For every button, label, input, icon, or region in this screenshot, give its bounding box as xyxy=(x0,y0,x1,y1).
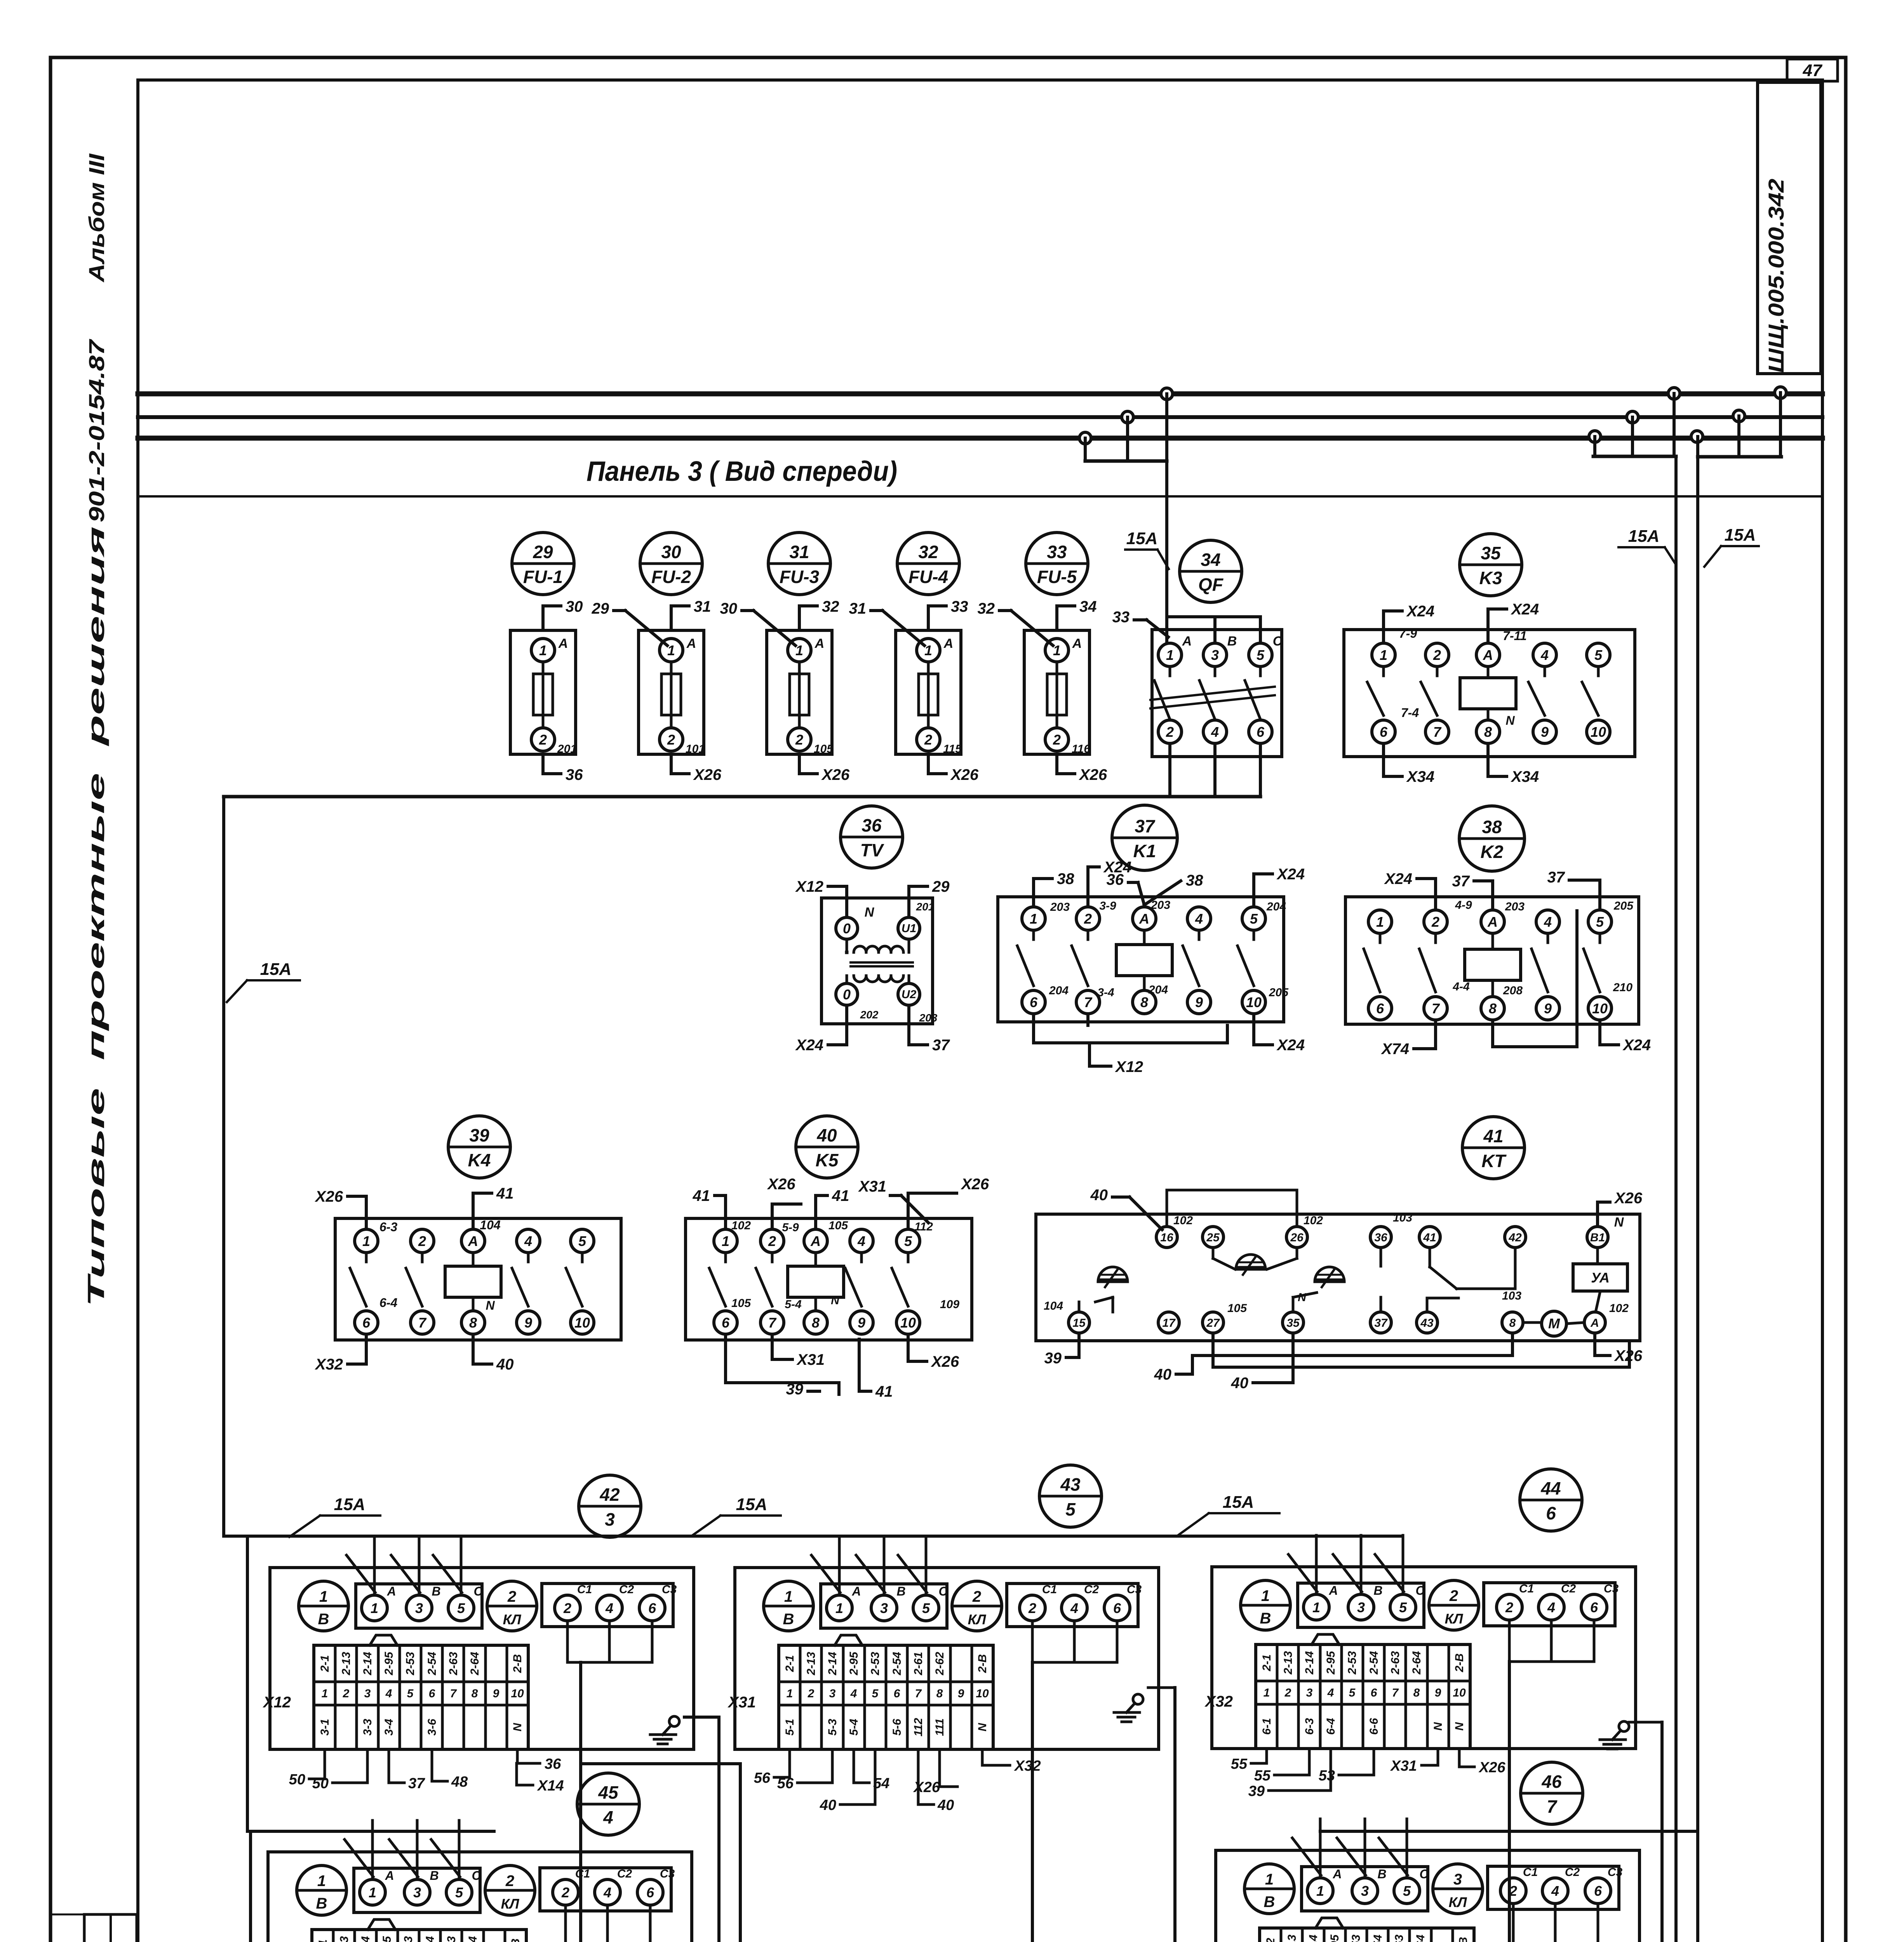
svg-text:X34: X34 xyxy=(1511,768,1539,785)
svg-text:32: 32 xyxy=(918,542,938,562)
svg-text:X26: X26 xyxy=(950,766,979,783)
svg-text:2: 2 xyxy=(563,1600,571,1616)
svg-text:33: 33 xyxy=(1047,542,1067,562)
svg-text:37: 37 xyxy=(1374,1317,1388,1329)
svg-text:44: 44 xyxy=(1540,1478,1561,1498)
svg-text:10: 10 xyxy=(1592,1001,1608,1016)
circuit breaker QF xyxy=(1112,540,1283,797)
terminal assembly 43 X31 xyxy=(727,1465,1159,1749)
svg-text:2-1: 2-1 xyxy=(1260,1654,1273,1671)
terminal assembly 46 X34 xyxy=(1208,1762,1639,1942)
svg-text:41: 41 xyxy=(832,1187,849,1204)
svg-text:6-6: 6-6 xyxy=(1368,1718,1380,1735)
svg-text:37: 37 xyxy=(1547,869,1565,886)
svg-text:3-53: 3-53 xyxy=(1350,1935,1363,1942)
svg-text:3: 3 xyxy=(880,1600,888,1616)
svg-text:1: 1 xyxy=(1030,911,1037,927)
svg-text:6: 6 xyxy=(362,1315,371,1331)
svg-text:43: 43 xyxy=(1420,1317,1434,1329)
svg-text:X31: X31 xyxy=(1390,1758,1417,1774)
svg-text:36: 36 xyxy=(545,1756,561,1772)
svg-text:15A: 15A xyxy=(1126,529,1158,548)
svg-text:3-64: 3-64 xyxy=(1414,1935,1427,1942)
svg-text:5: 5 xyxy=(1257,647,1265,663)
svg-text:41: 41 xyxy=(496,1185,514,1202)
svg-text:2-В: 2-В xyxy=(1453,1653,1466,1672)
fuse FU-4 xyxy=(849,532,979,783)
svg-text:111: 111 xyxy=(933,1718,946,1736)
svg-text:27: 27 xyxy=(1206,1317,1220,1329)
svg-text:5-6: 5-6 xyxy=(891,1719,903,1736)
svg-text:1: 1 xyxy=(322,1687,328,1700)
wire QF output bar / left feeder xyxy=(224,797,1260,1536)
svg-text:2-61: 2-61 xyxy=(912,1652,925,1676)
left form strip xyxy=(50,1914,137,1942)
svg-text:202: 202 xyxy=(860,1009,879,1021)
wire feeder drops block45 xyxy=(372,1831,459,1879)
svg-text:9: 9 xyxy=(524,1315,532,1331)
terminal assembly 45 X14 xyxy=(261,1773,692,1942)
svg-text:9: 9 xyxy=(958,1687,964,1700)
svg-text:105: 105 xyxy=(731,1297,751,1310)
svg-text:15A: 15A xyxy=(260,960,292,979)
svg-text:7: 7 xyxy=(915,1687,922,1700)
svg-text:5-4: 5-4 xyxy=(848,1719,860,1736)
svg-text:A: A xyxy=(1590,1317,1599,1329)
svg-text:6: 6 xyxy=(1113,1600,1121,1616)
svg-text:A: A xyxy=(468,1233,478,1249)
page number box 47 xyxy=(1787,59,1838,81)
svg-text:U1: U1 xyxy=(902,922,916,935)
svg-text:29: 29 xyxy=(533,542,553,562)
svg-text:В: В xyxy=(1264,1893,1275,1911)
svg-text:2-13: 2-13 xyxy=(338,1936,351,1942)
relay K2 xyxy=(1345,806,1651,1058)
svg-text:2-14: 2-14 xyxy=(1303,1651,1316,1675)
wires X31 bottom labels xyxy=(754,1749,1041,1813)
svg-text:41: 41 xyxy=(693,1187,710,1204)
svg-text:31: 31 xyxy=(694,598,711,615)
svg-text:X24: X24 xyxy=(1276,866,1305,883)
svg-text:X31: X31 xyxy=(796,1351,825,1368)
svg-text:2-13: 2-13 xyxy=(1282,1651,1295,1675)
svg-text:40: 40 xyxy=(1231,1375,1249,1392)
svg-text:102: 102 xyxy=(1173,1214,1193,1227)
svg-text:X26: X26 xyxy=(961,1176,989,1193)
svg-text:8: 8 xyxy=(1509,1317,1516,1329)
svg-text:1: 1 xyxy=(1265,1871,1274,1888)
svg-text:7-4: 7-4 xyxy=(1401,706,1419,720)
svg-text:2-53: 2-53 xyxy=(404,1652,417,1676)
svg-text:4: 4 xyxy=(1547,1599,1555,1615)
svg-text:38: 38 xyxy=(1482,817,1502,837)
svg-text:X32: X32 xyxy=(315,1356,343,1373)
svg-text:2: 2 xyxy=(539,732,547,748)
svg-text:8: 8 xyxy=(812,1315,820,1331)
svg-text:C3: C3 xyxy=(662,1583,677,1596)
svg-text:N: N xyxy=(976,1723,989,1731)
svg-text:4: 4 xyxy=(1070,1600,1078,1616)
svg-text:X74: X74 xyxy=(1381,1041,1409,1058)
svg-text:56: 56 xyxy=(777,1775,794,1792)
svg-text:204: 204 xyxy=(1049,984,1069,997)
svg-text:X12: X12 xyxy=(1115,1058,1143,1075)
wire riser to H3-1 xyxy=(581,1764,740,1942)
svg-text:30: 30 xyxy=(566,598,583,615)
svg-text:6: 6 xyxy=(1546,1503,1556,1523)
relay K5 xyxy=(686,1116,989,1400)
svg-text:A: A xyxy=(386,1584,396,1598)
svg-text:2-14: 2-14 xyxy=(359,1936,372,1942)
svg-text:8: 8 xyxy=(936,1687,943,1700)
svg-text:55: 55 xyxy=(1231,1756,1248,1772)
svg-text:6: 6 xyxy=(646,1885,654,1900)
svg-text:K5: K5 xyxy=(816,1150,839,1170)
wires X32 bottom labels xyxy=(1231,1749,1506,1799)
svg-text:33: 33 xyxy=(951,598,968,615)
svg-text:2-64: 2-64 xyxy=(1410,1651,1423,1675)
svg-text:40: 40 xyxy=(816,1125,837,1145)
svg-text:103: 103 xyxy=(1393,1211,1412,1224)
svg-text:39: 39 xyxy=(1044,1350,1062,1367)
svg-text:7: 7 xyxy=(1084,994,1093,1010)
svg-text:N: N xyxy=(1432,1722,1445,1731)
label 15A at block43 xyxy=(691,1495,781,1536)
svg-text:A: A xyxy=(385,1869,394,1883)
svg-text:46: 46 xyxy=(1541,1771,1562,1792)
svg-text:112: 112 xyxy=(914,1220,933,1233)
svg-text:5: 5 xyxy=(1250,911,1258,927)
svg-text:2: 2 xyxy=(507,1588,516,1605)
svg-text:3-1: 3-1 xyxy=(318,1719,331,1735)
svg-text:40: 40 xyxy=(820,1797,836,1813)
svg-text:QF: QF xyxy=(1198,574,1224,595)
svg-text:0: 0 xyxy=(843,921,851,936)
svg-text:2-95: 2-95 xyxy=(848,1651,860,1676)
svg-text:4: 4 xyxy=(1544,914,1552,930)
svg-text:4-9: 4-9 xyxy=(1455,899,1472,912)
svg-text:2: 2 xyxy=(1166,724,1174,740)
svg-text:0: 0 xyxy=(843,987,851,1002)
svg-text:10: 10 xyxy=(900,1315,916,1331)
svg-text:1: 1 xyxy=(835,1600,843,1616)
svg-text:25: 25 xyxy=(1206,1231,1220,1244)
svg-text:A: A xyxy=(1483,647,1493,663)
svg-text:X14: X14 xyxy=(537,1778,564,1794)
svg-text:8: 8 xyxy=(1489,1001,1497,1016)
svg-text:В: В xyxy=(318,1611,329,1628)
svg-text:6-4: 6-4 xyxy=(1324,1718,1337,1735)
svg-text:2-В: 2-В xyxy=(509,1939,522,1942)
svg-text:1: 1 xyxy=(1316,1883,1324,1899)
label 15A at block44 xyxy=(1177,1493,1279,1536)
svg-text:31: 31 xyxy=(789,542,809,562)
svg-text:КЛ: КЛ xyxy=(968,1611,987,1627)
svg-text:C2: C2 xyxy=(1084,1583,1099,1596)
relay K4 xyxy=(315,1116,621,1373)
svg-text:104: 104 xyxy=(1044,1300,1063,1312)
svg-text:2: 2 xyxy=(1431,914,1439,930)
svg-text:M: M xyxy=(1548,1316,1560,1331)
svg-text:38: 38 xyxy=(1186,872,1203,889)
svg-text:C1: C1 xyxy=(1519,1582,1534,1595)
svg-text:15A: 15A xyxy=(1725,526,1756,545)
svg-text:29: 29 xyxy=(592,600,609,617)
svg-text:3-4: 3-4 xyxy=(383,1719,395,1736)
svg-text:9: 9 xyxy=(1544,1001,1552,1016)
svg-text:2-95: 2-95 xyxy=(383,1651,395,1676)
svg-text:C: C xyxy=(472,1869,481,1883)
svg-text:2: 2 xyxy=(1284,1686,1291,1699)
svg-text:7: 7 xyxy=(1433,724,1442,740)
svg-text:203: 203 xyxy=(1505,900,1525,913)
svg-text:3-54: 3-54 xyxy=(1371,1935,1384,1942)
svg-text:7: 7 xyxy=(1392,1686,1399,1699)
svg-text:42: 42 xyxy=(599,1484,620,1505)
svg-text:X26: X26 xyxy=(1614,1190,1643,1207)
svg-text:105: 105 xyxy=(814,743,834,755)
svg-text:32: 32 xyxy=(822,598,839,615)
svg-text:36: 36 xyxy=(1107,871,1124,888)
svg-text:41: 41 xyxy=(875,1383,893,1400)
svg-text:1: 1 xyxy=(319,1588,328,1605)
svg-text:U2: U2 xyxy=(902,988,917,1001)
svg-text:X26: X26 xyxy=(1079,766,1107,783)
svg-text:2-14: 2-14 xyxy=(361,1652,374,1676)
svg-text:4: 4 xyxy=(605,1600,613,1616)
svg-text:3: 3 xyxy=(1357,1599,1365,1615)
svg-text:42: 42 xyxy=(1508,1231,1522,1244)
svg-text:1: 1 xyxy=(722,1233,729,1249)
svg-text:7-11: 7-11 xyxy=(1503,629,1527,643)
svg-text:ШЩ.005.000.342: ШЩ.005.000.342 xyxy=(1764,179,1788,373)
svg-text:B1: B1 xyxy=(1590,1231,1605,1244)
svg-text:2: 2 xyxy=(1084,911,1092,927)
left margin text Типовые проектные решения xyxy=(83,526,109,1307)
svg-text:3: 3 xyxy=(1361,1883,1369,1899)
svg-text:N: N xyxy=(1505,713,1515,727)
bus L2 xyxy=(138,415,1822,419)
svg-text:204: 204 xyxy=(1266,900,1286,913)
svg-text:8: 8 xyxy=(1140,994,1148,1010)
svg-text:33: 33 xyxy=(1112,609,1130,626)
svg-text:8: 8 xyxy=(1484,724,1492,740)
wire left drop to block45 and H3 xyxy=(247,1536,494,1942)
svg-text:6: 6 xyxy=(648,1600,656,1616)
svg-text:2: 2 xyxy=(768,1233,776,1249)
svg-text:6: 6 xyxy=(1590,1599,1598,1615)
bus L3 xyxy=(138,436,1822,441)
svg-text:15A: 15A xyxy=(736,1495,768,1514)
svg-text:35: 35 xyxy=(1286,1317,1300,1329)
svg-text:10: 10 xyxy=(976,1687,989,1700)
svg-text:5: 5 xyxy=(1399,1599,1407,1615)
svg-text:4: 4 xyxy=(1540,647,1549,663)
svg-text:X26: X26 xyxy=(315,1188,343,1205)
svg-text:КЛ: КЛ xyxy=(1445,1611,1464,1627)
svg-text:3: 3 xyxy=(415,1600,423,1616)
svg-text:5: 5 xyxy=(457,1600,465,1616)
svg-text:6: 6 xyxy=(1371,1686,1377,1699)
svg-text:210: 210 xyxy=(1613,981,1632,994)
svg-text:5: 5 xyxy=(904,1233,912,1249)
svg-text:C1: C1 xyxy=(1523,1866,1538,1879)
svg-text:B: B xyxy=(432,1584,440,1598)
svg-text:8: 8 xyxy=(469,1315,477,1331)
svg-text:K1: K1 xyxy=(1133,841,1156,861)
svg-text:C: C xyxy=(1273,634,1283,649)
svg-text:10: 10 xyxy=(1591,724,1606,740)
svg-text:3-3: 3-3 xyxy=(361,1719,374,1736)
svg-text:203: 203 xyxy=(919,1012,938,1024)
svg-text:B: B xyxy=(1373,1584,1382,1597)
svg-text:47: 47 xyxy=(1803,61,1823,80)
svg-text:X24: X24 xyxy=(1276,1037,1305,1054)
svg-text:2: 2 xyxy=(561,1885,569,1900)
svg-text:1: 1 xyxy=(1261,1587,1270,1604)
svg-text:1: 1 xyxy=(371,1600,378,1616)
svg-text:4: 4 xyxy=(857,1233,865,1249)
svg-text:X12: X12 xyxy=(263,1694,291,1711)
svg-text:2-54: 2-54 xyxy=(426,1652,439,1676)
svg-text:A: A xyxy=(1328,1584,1338,1597)
svg-text:53: 53 xyxy=(1319,1768,1335,1784)
svg-text:2-1: 2-1 xyxy=(317,1939,329,1942)
svg-text:6-4: 6-4 xyxy=(379,1296,397,1310)
svg-text:X26: X26 xyxy=(693,766,722,783)
svg-text:C: C xyxy=(1415,1584,1425,1597)
svg-text:Альбом III: Альбом III xyxy=(84,153,109,283)
svg-text:X24: X24 xyxy=(1406,603,1434,620)
svg-text:40: 40 xyxy=(937,1797,954,1813)
wire riser to H4-1 xyxy=(567,1621,652,1942)
svg-text:2: 2 xyxy=(1433,647,1441,663)
svg-text:2-54: 2-54 xyxy=(891,1652,903,1676)
svg-text:5: 5 xyxy=(1596,914,1604,930)
svg-text:901-2-0154.87: 901-2-0154.87 xyxy=(84,338,109,522)
svg-text:37: 37 xyxy=(408,1775,425,1792)
svg-text:41: 41 xyxy=(1483,1126,1503,1146)
wire right feeder A xyxy=(1589,388,1680,1942)
svg-text:X12: X12 xyxy=(795,878,823,895)
svg-text:2-В: 2-В xyxy=(511,1654,524,1673)
svg-text:6: 6 xyxy=(1030,994,1038,1010)
label 15A at feeder B xyxy=(1704,526,1759,567)
svg-text:2: 2 xyxy=(418,1233,426,1249)
svg-text:3: 3 xyxy=(829,1687,836,1700)
svg-text:31: 31 xyxy=(849,600,867,617)
svg-text:2: 2 xyxy=(1028,1600,1036,1616)
svg-text:39: 39 xyxy=(469,1125,489,1145)
left margin text 901-2-0154.87 xyxy=(84,338,109,522)
terminal assembly 44 X32 xyxy=(1204,1469,1636,1749)
svg-text:55: 55 xyxy=(1254,1768,1271,1784)
svg-text:6-3: 6-3 xyxy=(379,1220,397,1234)
svg-text:10: 10 xyxy=(1246,994,1262,1010)
svg-text:2-13: 2-13 xyxy=(340,1652,353,1676)
svg-text:3-В: 3-В xyxy=(1457,1937,1470,1942)
svg-text:36: 36 xyxy=(861,815,882,835)
svg-text:5: 5 xyxy=(1594,647,1603,663)
svg-text:30: 30 xyxy=(720,600,738,617)
svg-text:6: 6 xyxy=(1594,1883,1602,1899)
svg-text:2: 2 xyxy=(343,1687,350,1700)
svg-text:1: 1 xyxy=(784,1588,793,1605)
relay K3 xyxy=(1344,534,1635,785)
svg-text:В: В xyxy=(783,1611,794,1628)
title band line xyxy=(138,495,1822,498)
svg-text:X26: X26 xyxy=(767,1176,795,1193)
svg-text:6: 6 xyxy=(429,1687,435,1700)
svg-text:X26: X26 xyxy=(821,766,850,783)
svg-text:1: 1 xyxy=(539,642,547,658)
svg-text:5: 5 xyxy=(922,1600,930,1616)
wire riser to H5-1 xyxy=(1032,1662,1064,1942)
svg-text:101: 101 xyxy=(686,743,705,755)
svg-text:B: B xyxy=(430,1869,439,1883)
svg-text:56: 56 xyxy=(754,1770,771,1786)
svg-text:A: A xyxy=(815,636,825,651)
svg-text:Панель 3 ( Вид спереди): Панель 3 ( Вид спереди) xyxy=(587,456,897,487)
svg-text:17: 17 xyxy=(1162,1317,1176,1329)
svg-text:X24: X24 xyxy=(1384,870,1412,887)
svg-text:48: 48 xyxy=(451,1774,468,1790)
wire feeder B lower xyxy=(1663,1831,1698,1942)
svg-text:A: A xyxy=(1332,1867,1342,1881)
svg-text:4: 4 xyxy=(603,1885,611,1900)
svg-text:C3: C3 xyxy=(1604,1582,1619,1595)
svg-text:10: 10 xyxy=(511,1687,524,1700)
svg-text:6: 6 xyxy=(894,1687,900,1700)
svg-text:29: 29 xyxy=(932,878,950,895)
svg-text:1: 1 xyxy=(1166,647,1174,663)
svg-text:3-14: 3-14 xyxy=(1307,1935,1320,1942)
svg-text:B: B xyxy=(896,1584,905,1598)
svg-text:1: 1 xyxy=(1312,1599,1320,1615)
svg-text:16: 16 xyxy=(1160,1231,1173,1244)
svg-text:6: 6 xyxy=(1257,724,1265,740)
terminal assembly 42 X12 xyxy=(263,1475,694,1749)
svg-text:105: 105 xyxy=(828,1219,848,1232)
svg-text:39: 39 xyxy=(786,1381,804,1398)
svg-text:2: 2 xyxy=(1449,1587,1458,1604)
svg-text:1: 1 xyxy=(362,1233,370,1249)
svg-text:2-64: 2-64 xyxy=(466,1936,479,1942)
svg-text:34: 34 xyxy=(1079,598,1097,615)
svg-text:2-13: 2-13 xyxy=(805,1652,818,1676)
wire ground riser right xyxy=(1629,1722,1662,1942)
wire feeder to block46 xyxy=(1320,1831,1698,1878)
svg-text:3-9: 3-9 xyxy=(1099,900,1116,912)
svg-text:2-63: 2-63 xyxy=(447,1652,460,1676)
svg-text:FU-3: FU-3 xyxy=(780,567,820,587)
svg-text:A: A xyxy=(1182,634,1192,649)
svg-text:5: 5 xyxy=(1403,1883,1411,1899)
svg-text:2-53: 2-53 xyxy=(1346,1651,1359,1675)
fuse FU-2 xyxy=(592,532,722,783)
svg-text:X26: X26 xyxy=(931,1353,959,1370)
svg-text:КЛ: КЛ xyxy=(1449,1894,1467,1910)
svg-text:112: 112 xyxy=(912,1718,925,1737)
svg-text:УА: УА xyxy=(1591,1270,1610,1286)
svg-text:2-54: 2-54 xyxy=(1368,1651,1380,1675)
svg-text:C: C xyxy=(1419,1867,1429,1881)
svg-text:KT: KT xyxy=(1481,1151,1507,1171)
svg-text:203: 203 xyxy=(1050,901,1070,914)
svg-text:115: 115 xyxy=(943,743,962,755)
svg-text:43: 43 xyxy=(1060,1474,1081,1495)
svg-text:30: 30 xyxy=(661,542,681,562)
